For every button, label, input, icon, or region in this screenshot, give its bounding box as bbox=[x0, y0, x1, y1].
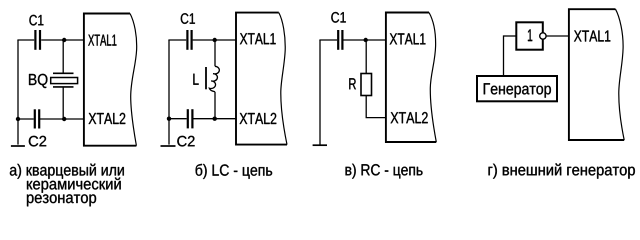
resistor R bbox=[361, 74, 372, 96]
pin label XTAL1 (d) bbox=[574, 30, 610, 41]
ground a bbox=[11, 145, 25, 147]
label C1 (b) bbox=[181, 13, 195, 24]
node bottom-left junction b bbox=[167, 117, 171, 121]
caption c bbox=[346, 164, 423, 179]
pin label XTAL1 (a) bbox=[88, 35, 116, 46]
wire left rail b bbox=[168, 40, 170, 145]
label Генератор bbox=[484, 83, 551, 97]
wire top c right segment (to XTAL1 pin) bbox=[344, 39, 387, 41]
wire generator to inverter bbox=[503, 35, 505, 76]
capacitor C1 (c) bbox=[338, 30, 342, 50]
label R bbox=[349, 78, 356, 89]
node bottom-mid junction a bbox=[62, 117, 66, 121]
caption d bbox=[489, 163, 635, 178]
wire top a right segment (to XTAL1 pin) bbox=[41, 39, 84, 41]
label C2 (b) bbox=[177, 136, 194, 147]
pin label XTAL2 (b) bbox=[240, 113, 277, 124]
capacitor C1 (a) bbox=[35, 30, 40, 50]
wire top a left segment bbox=[17, 39, 34, 41]
node junction c bbox=[364, 38, 368, 42]
node top junction a bbox=[62, 38, 66, 42]
wire left rail c bbox=[319, 40, 321, 145]
wire bottom a right segment (to XTAL2 pin) bbox=[40, 118, 84, 120]
wire crystal top lead bbox=[62, 40, 64, 73]
pin label XTAL1 (b) bbox=[240, 33, 276, 44]
caption a line1 bbox=[10, 164, 124, 179]
crystal BQ bbox=[51, 73, 78, 87]
IC box c bbox=[386, 13, 436, 143]
generator G1 box bbox=[477, 76, 557, 101]
IC c torn right edge bbox=[429, 13, 436, 143]
inductor L coil bbox=[209, 66, 219, 92]
ground b bbox=[161, 145, 176, 147]
inverter output bubble bbox=[540, 33, 546, 39]
wire top c left segment bbox=[319, 39, 337, 41]
capacitor C2 (a) bbox=[35, 109, 39, 128]
wire bottom a left segment bbox=[17, 118, 33, 120]
caption a line3 bbox=[27, 194, 96, 206]
IC box a bbox=[84, 14, 136, 146]
wire left rail a bbox=[17, 40, 19, 145]
wire top b right segment (to XTAL1 pin) bbox=[193, 39, 236, 41]
label C1 (a) bbox=[29, 15, 43, 26]
label 1 (inverter) bbox=[528, 29, 532, 41]
ground c bbox=[313, 144, 327, 146]
label C2 (a) bbox=[29, 136, 46, 147]
IC box b bbox=[236, 13, 287, 145]
capacitor C1 (b) bbox=[187, 30, 191, 50]
wire inductor bottom lead bbox=[214, 92, 216, 119]
pin label XTAL1 (c) bbox=[390, 33, 426, 44]
IC a torn right edge bbox=[130, 14, 137, 146]
node bottom-mid junction b bbox=[213, 117, 217, 121]
label BQ bbox=[29, 74, 47, 88]
IC box d bbox=[569, 9, 624, 140]
pin label XTAL2 (c) bbox=[391, 112, 428, 123]
inductor L core bar bbox=[205, 67, 207, 89]
caption b bbox=[196, 164, 273, 179]
wire bubble to XTAL1 bbox=[546, 35, 569, 37]
wire top b left segment bbox=[168, 39, 186, 41]
wire crystal bottom lead bbox=[62, 87, 64, 119]
wire resistor bottom lead to XTAL2 bbox=[366, 96, 386, 118]
IC b torn right edge bbox=[279, 13, 287, 145]
label C1 (c) bbox=[331, 12, 345, 23]
node top junction b bbox=[213, 38, 217, 42]
wire inductor top lead bbox=[214, 40, 216, 66]
wire inverter input bbox=[504, 35, 517, 37]
IC d torn right edge bbox=[616, 9, 625, 140]
inverter U1 box bbox=[516, 22, 543, 49]
wire bottom b right segment (to XTAL2 pin) bbox=[194, 118, 237, 120]
node bottom-left junction a bbox=[16, 117, 20, 121]
label L bbox=[193, 74, 198, 85]
capacitor C2 (b) bbox=[188, 109, 193, 128]
pin label XTAL2 (a) bbox=[89, 113, 126, 124]
wire resistor top lead bbox=[365, 40, 367, 74]
wire bottom b left segment bbox=[168, 118, 186, 120]
caption a line2 bbox=[27, 178, 121, 193]
